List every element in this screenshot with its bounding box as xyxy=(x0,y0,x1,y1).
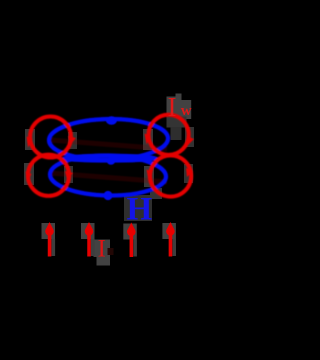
arrowhead nub on L-top circle xyxy=(68,136,76,145)
field loop circle R-top (red) xyxy=(149,115,189,155)
wire W1 (faint conductor line top) xyxy=(50,140,167,149)
svg-text:w: w xyxy=(181,103,192,119)
halo box of label H xyxy=(124,195,152,221)
flux ellipse E1 core xyxy=(49,118,169,161)
halo box of label I (bottom) xyxy=(94,240,111,266)
flux ellipse E1 (outer blue field line, top) glow xyxy=(49,118,169,197)
halo boxes of field-direction arrowheads xyxy=(24,127,194,187)
halo box of label I_w xyxy=(167,94,192,141)
arrowhead on E2 bottom xyxy=(104,191,113,200)
svg-text:I: I xyxy=(98,236,106,263)
field loop circle L-bottom (red) xyxy=(28,155,69,196)
current arrow 3 xyxy=(123,223,137,258)
faint subscript after bottom I xyxy=(108,248,114,255)
arrowhead nub left side of L-bottom circle xyxy=(26,172,32,183)
flux ellipse E3 (flat middle field line) xyxy=(64,156,156,161)
current arrow 2 xyxy=(81,222,95,257)
field loop circle L-top glow xyxy=(28,115,191,197)
arrowhead nub left side of R-top circle xyxy=(145,134,151,145)
field loop circle L-top (red) xyxy=(30,117,71,158)
svg-text:H: H xyxy=(127,192,153,228)
wire W2 (faint conductor line bottom) xyxy=(50,173,167,182)
arrowhead nub on L-bottom circle xyxy=(65,171,73,179)
arrowhead on E1 bottom / E2 top (middle band) xyxy=(107,157,115,165)
current arrow 1 xyxy=(42,222,56,257)
arrowhead nub left side of R-bottom circle xyxy=(147,170,153,181)
arrowhead nub on R-bottom circle xyxy=(186,168,193,177)
arrowhead nub left side of L-top circle xyxy=(27,137,33,148)
current arrow 4 xyxy=(162,222,176,257)
arrowhead on E1 top xyxy=(106,116,117,125)
arrowhead nub on R-top circle xyxy=(187,136,194,145)
flux ellipse E2 core xyxy=(50,154,167,196)
field loop circle R-bottom (red) xyxy=(150,155,191,196)
svg-text:I: I xyxy=(168,92,177,122)
